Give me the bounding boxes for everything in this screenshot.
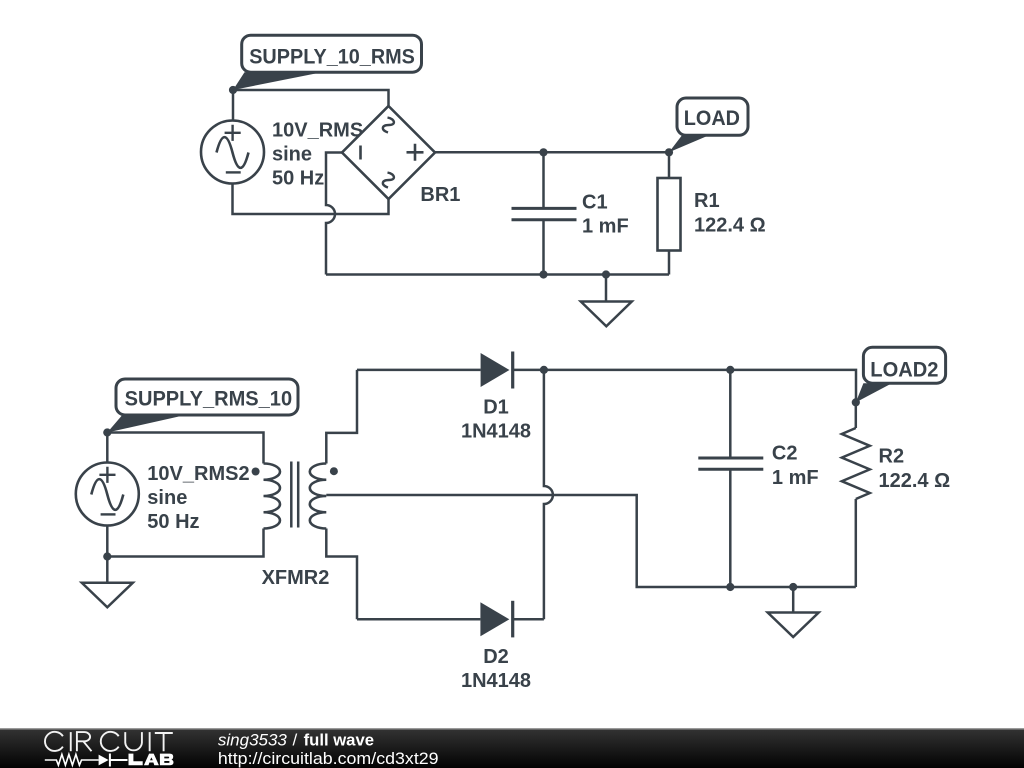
svg-text:BR1: BR1 [420, 184, 460, 206]
wire D1 cathode to LOAD2 [513, 370, 856, 403]
node LOAD [665, 98, 748, 156]
ground (bottom circuit) [768, 587, 819, 637]
wire from node SUPPLY_10_RMS to bridge top [233, 90, 389, 106]
wire node SUPPLY_RMS_10 down to V2 [106, 433, 109, 463]
svg-text:C1: C1 [582, 192, 608, 214]
svg-text:122.4 Ω: 122.4 Ω [694, 215, 766, 237]
svg-text:LOAD: LOAD [684, 106, 740, 130]
wire node to primary top [107, 433, 263, 464]
junction dot C1 bottom [539, 270, 547, 278]
junction dot C2 bottom [726, 583, 734, 591]
wire primary bottom to V2 bottom [107, 529, 263, 557]
svg-text:R2: R2 [879, 445, 905, 467]
svg-text:sine: sine [272, 144, 312, 166]
logo text LAB [129, 754, 174, 766]
wire D2 cathode to connector [513, 618, 544, 621]
svg-text:1 mF: 1 mF [582, 216, 629, 238]
svg-text:1N4148: 1N4148 [461, 421, 531, 443]
svg-text:50 Hz: 50 Hz [147, 511, 199, 533]
polarity dot secondary [330, 467, 338, 475]
transformer core [291, 462, 298, 528]
svg-text:D2: D2 [483, 646, 509, 668]
svg-text:full wave: full wave [304, 731, 374, 750]
svg-text:SUPPLY_RMS_10: SUPPLY_RMS_10 [125, 387, 293, 411]
center tap wire [326, 495, 856, 587]
junction dot ground top [602, 270, 610, 278]
resistor R1 [658, 152, 681, 274]
resistor R2 [842, 402, 870, 587]
wire D1 row left [357, 369, 481, 372]
wire bridge left with hop over bottom wire [326, 153, 342, 275]
svg-text:SUPPLY_10_RMS: SUPPLY_10_RMS [249, 45, 415, 69]
ground (V2) [82, 557, 133, 608]
transformer XFMR2 secondary coil [310, 464, 327, 529]
svg-text:C2: C2 [772, 443, 798, 465]
svg-text:1N4148: 1N4148 [461, 670, 531, 692]
svg-text:http://circuitlab.com/cd3xt29: http://circuitlab.com/cd3xt29 [218, 749, 439, 768]
svg-text:/: / [293, 731, 298, 750]
logo diode [99, 755, 109, 766]
wire secondary bottom to D2 row [326, 529, 357, 620]
wire V1 bottom to bridge bottom [233, 184, 389, 215]
D1-D2 vertical connector with hop [544, 370, 553, 619]
node SUPPLY_10_RMS [229, 35, 422, 94]
junction dot V2 bottom [103, 552, 111, 560]
voltage source V2 [76, 463, 139, 526]
junction dot C2 top [726, 366, 734, 374]
top rail bridge right to LOAD node [435, 151, 669, 154]
bottom rail [326, 273, 669, 276]
node SUPPLY_RMS_10 [103, 379, 298, 437]
svg-text:1 mF: 1 mF [772, 467, 819, 489]
diode D2 [480, 601, 512, 638]
voltage source V1 [201, 121, 264, 184]
svg-text:R1: R1 [694, 190, 720, 212]
svg-text:D1: D1 [483, 397, 509, 419]
ground (top circuit) [581, 275, 632, 327]
junction dot C1 top [539, 148, 547, 156]
wire V2 bottom to ground [106, 526, 109, 557]
svg-text:50 Hz: 50 Hz [272, 168, 324, 190]
capacitor C1 [512, 152, 577, 274]
wire from node SUPPLY_10_RMS down to V1 [232, 90, 235, 121]
svg-text:10V_RMS2: 10V_RMS2 [147, 463, 249, 485]
transformer XFMR2 primary coil [264, 464, 281, 529]
junction dot D1 cathode [540, 366, 548, 374]
junction dot ground bottom [789, 583, 797, 591]
wire D2 row left [357, 618, 480, 621]
logo resistor zigzag [45, 754, 99, 765]
svg-text:sing3533: sing3533 [218, 731, 288, 750]
CircuitLab logo text CIRCUIT [45, 732, 173, 751]
capacitor C2 [698, 370, 763, 587]
polarity dot primary [252, 468, 260, 476]
bridge rectifier BR1 [342, 106, 435, 199]
wire secondary top to D1 row [326, 370, 357, 464]
svg-text:sine: sine [147, 487, 187, 509]
svg-text:XFMR2: XFMR2 [262, 567, 330, 589]
svg-text:122.4 Ω: 122.4 Ω [879, 470, 951, 492]
diode D1 [481, 352, 513, 389]
node LOAD2 [852, 347, 946, 406]
svg-text:10V_RMS: 10V_RMS [272, 120, 363, 142]
svg-text:LOAD2: LOAD2 [870, 358, 938, 382]
